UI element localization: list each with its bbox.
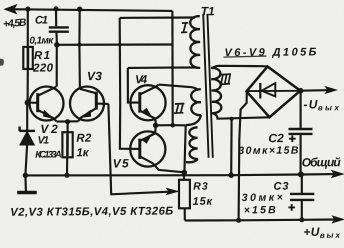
- winding II upper: [191, 89, 201, 115]
- winding III: [211, 68, 221, 113]
- wire V4 base feed: [128, 68, 140, 103]
- svg-text:+U: +U: [303, 225, 319, 239]
- svg-text:R2: R2: [76, 133, 92, 145]
- resistor R3: [183, 173, 185, 180]
- wire common tap drop x=231.5: [230, 119, 233, 176]
- wire R3 wiper feed: [108, 104, 169, 194]
- svg-text:+4,5В: +4,5В: [3, 16, 28, 30]
- wire winding I bottom to V4 base y=67.7: [128, 66, 197, 69]
- wire emitters to tap: [156, 124, 173, 126]
- svg-text:V1: V1: [38, 134, 50, 146]
- node input arrow left: [5, 5, 17, 14]
- svg-text:×15В: ×15В: [244, 204, 276, 216]
- label winding II: [174, 104, 185, 114]
- wire winding III top to bridge: [212, 66, 268, 69]
- wire V4 collector to winding II top: [159, 85, 199, 91]
- transistor V5: [130, 131, 165, 166]
- wire V2 collector riser: [56, 45, 58, 87]
- resistor R1: [27, 9, 29, 47]
- svg-text:С2: С2: [268, 131, 284, 145]
- winding I: [190, 16, 200, 68]
- wire V2 collector bus y=44.5: [57, 43, 173, 45]
- label winding III: [220, 74, 232, 84]
- wire winding I top feed y=17.8: [120, 16, 195, 19]
- wire winding II tap vertical: [184, 125, 185, 172]
- winding II lower: [189, 127, 197, 159]
- svg-text:1к: 1к: [76, 147, 89, 159]
- wire V3base/V5base vertical x=119.7: [120, 18, 140, 149]
- svg-text:R1: R1: [34, 50, 50, 62]
- svg-text:вых: вых: [320, 231, 341, 240]
- wire +U rail: [185, 220, 337, 221]
- resistor R2: [67, 122, 69, 132]
- zener diode V1: [26, 105, 28, 133]
- node common output arrow: [332, 171, 343, 178]
- svg-text:V2,V3 КТ315Б,V4,V5 КТ326Б: V2,V3 КТ315Б,V4,V5 КТ326Б: [10, 205, 173, 218]
- transistor V3: [70, 87, 104, 121]
- svg-text:Общий: Общий: [302, 155, 342, 169]
- ground: [24, 175, 27, 191]
- svg-text:Т1: Т1: [201, 4, 215, 18]
- wire bridge left corner to +U rail: [239, 92, 247, 220]
- wire supply vertical drop x=172.5: [171, 11, 173, 125]
- capacitor C2 plus sign: [289, 135, 296, 142]
- svg-text:220: 220: [32, 62, 54, 74]
- diode bridge V6-V9: [247, 67, 301, 118]
- svg-text:0,1мк: 0,1мк: [29, 35, 54, 46]
- wire winding III bottom to bridge: [212, 113, 269, 119]
- svg-text:вых: вых: [318, 103, 340, 112]
- svg-text:-U: -U: [303, 97, 317, 111]
- label winding I: [181, 23, 188, 33]
- wire +4.5V top rail: [6, 9, 172, 11]
- transistor V2: [30, 87, 64, 121]
- wire V2 V3 emitter join: [57, 120, 79, 122]
- wire tap to winding II: [173, 124, 186, 126]
- wire V3 collector riser x=79: [78, 9, 81, 89]
- node +U output arrow: [333, 216, 344, 223]
- svg-text:С1: С1: [35, 14, 48, 26]
- svg-text:15к: 15к: [193, 196, 214, 208]
- svg-text:V4: V4: [135, 74, 148, 86]
- wire -Uout: [300, 89, 327, 92]
- wire common rail: [25, 174, 336, 175]
- svg-text:R3: R3: [193, 181, 208, 193]
- capacitor C1: [55, 9, 57, 26]
- transformer T1 core: [203, 14, 208, 158]
- svg-text:V3: V3: [87, 69, 102, 83]
- capacitor C2: [300, 91, 302, 128]
- transistor V4: [130, 85, 165, 120]
- svg-text:КС133А: КС133А: [35, 149, 62, 160]
- capacitor C3 plus sign: [288, 204, 295, 211]
- capacitor C3: [301, 175, 303, 193]
